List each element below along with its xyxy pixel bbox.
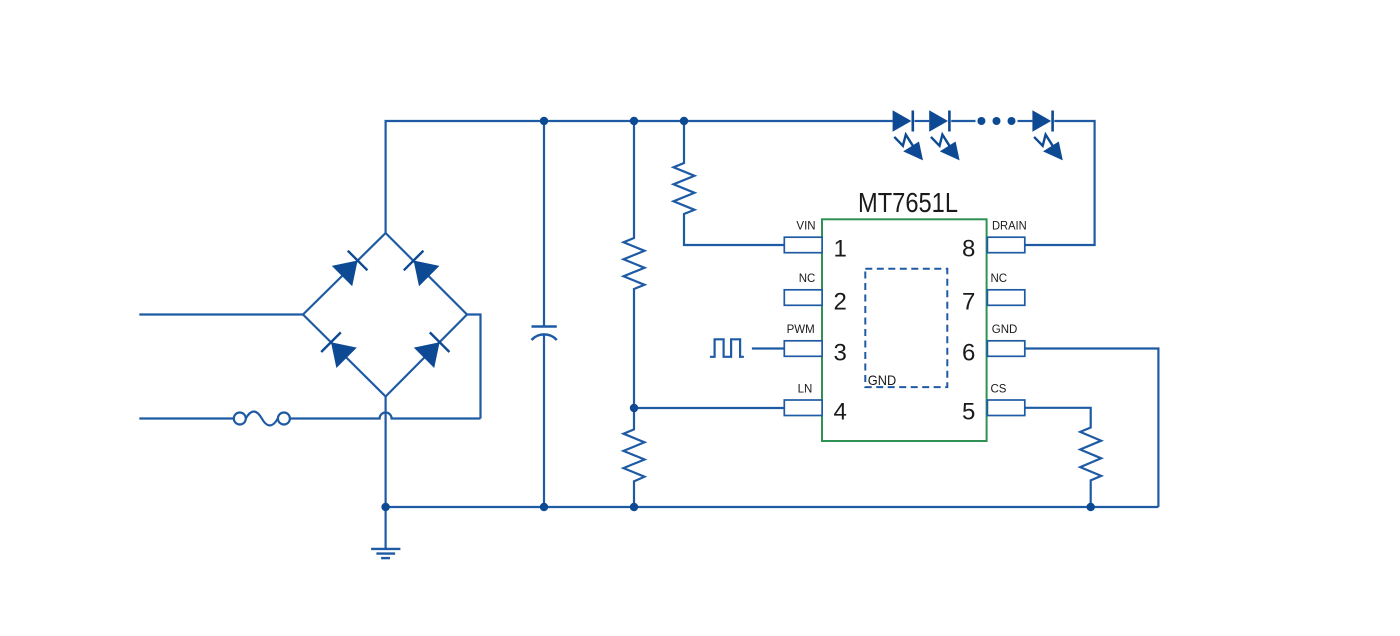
svg-text:DRAIN: DRAIN bbox=[992, 221, 1027, 233]
svg-text:3: 3 bbox=[834, 339, 847, 366]
svg-text:MT7651L: MT7651L bbox=[858, 187, 958, 218]
svg-text:7: 7 bbox=[962, 288, 975, 315]
svg-text:CS: CS bbox=[991, 383, 1007, 395]
svg-text:PWM: PWM bbox=[787, 324, 815, 336]
svg-text:GND: GND bbox=[868, 372, 896, 388]
svg-text:6: 6 bbox=[962, 339, 975, 366]
svg-text:LN: LN bbox=[798, 383, 813, 395]
svg-text:NC: NC bbox=[991, 273, 1008, 285]
svg-text:NC: NC bbox=[799, 273, 816, 285]
svg-text:5: 5 bbox=[962, 399, 975, 426]
svg-text:GND: GND bbox=[992, 324, 1018, 336]
svg-text:8: 8 bbox=[962, 235, 975, 262]
svg-text:4: 4 bbox=[834, 399, 847, 426]
svg-text:2: 2 bbox=[834, 288, 847, 315]
svg-text:VIN: VIN bbox=[796, 221, 815, 233]
svg-text:1: 1 bbox=[834, 235, 847, 262]
